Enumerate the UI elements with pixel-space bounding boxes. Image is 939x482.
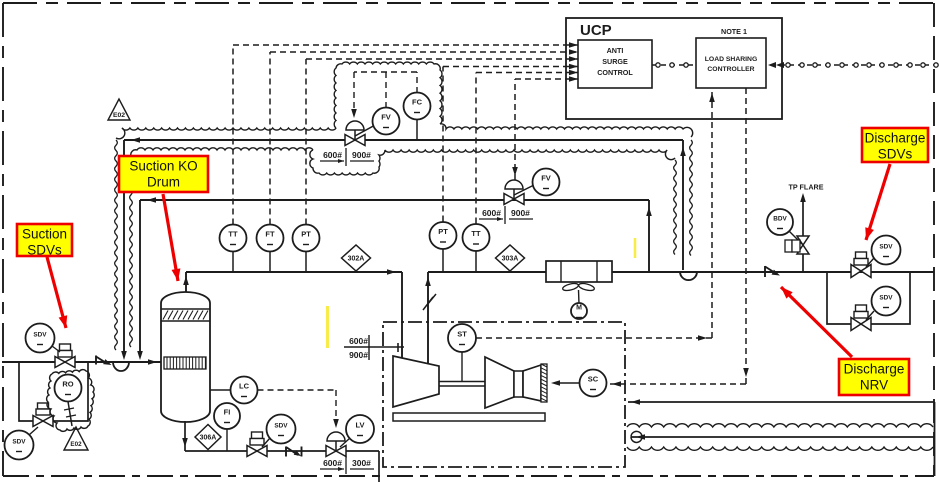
instrument LC xyxy=(210,377,258,404)
label arrow suction SDVs xyxy=(47,257,67,328)
label suction KO drum xyxy=(119,156,208,192)
UCP panel box xyxy=(566,18,782,119)
spec break 600-300 xyxy=(320,456,374,474)
compressor discharge riser xyxy=(423,272,436,368)
node 306A xyxy=(195,425,221,450)
instrument SDV4 xyxy=(872,236,901,265)
instrument FV1 xyxy=(373,108,400,135)
svg-text:Suction: Suction xyxy=(22,227,67,242)
instrument BDV xyxy=(767,209,793,235)
svg-text:TT: TT xyxy=(471,229,481,238)
instrument FV2 xyxy=(533,169,560,196)
FC1 to FV1 signal wire xyxy=(351,72,417,118)
check valve NRV xyxy=(765,266,780,277)
PT2 signal wire xyxy=(443,64,578,222)
instrument FI xyxy=(214,403,240,451)
label arrow discharge NRV xyxy=(781,287,852,357)
svg-text:TP FLARE: TP FLARE xyxy=(788,183,823,192)
revision cloud recycle 1 inner xyxy=(130,148,677,347)
svg-text:600#: 600# xyxy=(349,336,368,346)
svg-text:BDV: BDV xyxy=(773,216,787,223)
vessel suction KO drum xyxy=(161,292,210,422)
svg-text:300#: 300# xyxy=(352,458,371,468)
label arrow discharge SDVs xyxy=(865,164,890,240)
svg-text:LC: LC xyxy=(239,382,250,391)
revision cloud seal gas xyxy=(627,424,933,451)
compressor casing xyxy=(393,356,439,407)
svg-text:PT: PT xyxy=(438,227,448,236)
svg-text:Discharge: Discharge xyxy=(844,362,905,377)
instrument SDV5 xyxy=(872,287,901,316)
turbine driver xyxy=(485,357,547,408)
drum mid distributor xyxy=(164,357,206,369)
discharge bypass line xyxy=(827,271,910,324)
instrument FC1 xyxy=(404,93,431,141)
interlock flag E02 lower xyxy=(64,427,88,450)
fuel gas line arrow xyxy=(628,399,935,476)
svg-text:ST: ST xyxy=(457,330,467,339)
svg-text:SDV: SDV xyxy=(12,439,26,446)
node 303A xyxy=(496,245,525,271)
svg-text:LOAD SHARING: LOAD SHARING xyxy=(705,56,758,63)
svg-text:E02: E02 xyxy=(113,112,125,119)
svg-text:SDV: SDV xyxy=(33,332,47,339)
svg-text:Discharge: Discharge xyxy=(865,131,926,146)
label arrow suction KO drum xyxy=(163,194,180,281)
control valve FV2 xyxy=(504,180,534,205)
svg-text:600#: 600# xyxy=(323,150,342,160)
instrument SDV3 xyxy=(267,415,296,444)
load sharing controller box xyxy=(696,38,766,88)
drum top outlet line xyxy=(183,272,189,292)
ST to LSC signal wire xyxy=(476,88,715,341)
spec break 600-900 no1 xyxy=(320,148,374,166)
highlight mark 1 xyxy=(326,306,329,348)
svg-text:302A: 302A xyxy=(348,256,365,263)
data link ASC-LSC xyxy=(652,63,696,67)
spec break 600-900 turbine inlet xyxy=(344,335,404,360)
svg-text:CONTROL: CONTROL xyxy=(597,68,633,77)
svg-text:SC: SC xyxy=(588,375,599,384)
svg-text:Drum: Drum xyxy=(147,175,180,190)
skid boundary xyxy=(383,322,625,467)
blowdown valve BDV xyxy=(785,231,809,254)
svg-text:900#: 900# xyxy=(511,208,530,218)
svg-text:TT: TT xyxy=(228,230,238,239)
label discharge NRV xyxy=(839,359,909,395)
svg-text:FV: FV xyxy=(541,174,551,183)
drum top demister xyxy=(161,309,210,321)
instrument SDV2 xyxy=(5,427,39,460)
revision cloud recycle 1 outer xyxy=(115,62,693,350)
bypass valve SDV5 xyxy=(851,305,874,331)
SC to turbine wire xyxy=(551,380,580,386)
flare line xyxy=(788,183,823,273)
page border right xyxy=(933,3,935,476)
check valve drain xyxy=(286,447,302,457)
svg-text:E02: E02 xyxy=(70,441,82,448)
data link LSC-right xyxy=(768,62,938,68)
TT2 signal wire xyxy=(476,70,578,224)
drain line xyxy=(185,451,379,482)
drum bottom outlet line xyxy=(182,421,188,451)
instrument FT1 xyxy=(257,225,284,273)
svg-text:FC: FC xyxy=(412,98,423,107)
motor M xyxy=(571,303,587,319)
svg-text:FT: FT xyxy=(265,230,275,239)
svg-text:UCP: UCP xyxy=(580,22,612,39)
svg-text:M: M xyxy=(576,305,582,312)
svg-text:FI: FI xyxy=(224,408,231,417)
recycle line 2 xyxy=(137,197,652,360)
revision cloud RO xyxy=(47,370,95,432)
anti surge control box xyxy=(578,40,652,88)
svg-text:SDVs: SDVs xyxy=(27,243,62,258)
instrument TT2 xyxy=(463,224,490,272)
restriction orifice RO xyxy=(55,375,82,427)
shutdown valve SDV1 xyxy=(55,344,75,368)
instrument SDV1 xyxy=(26,324,61,353)
shaft xyxy=(439,382,485,387)
page border top xyxy=(3,2,934,4)
spec break 600-900 no2 xyxy=(479,206,533,224)
air cooler xyxy=(546,261,612,282)
svg-text:900#: 900# xyxy=(352,150,371,160)
check valve suction xyxy=(96,356,112,366)
svg-text:PT: PT xyxy=(301,230,311,239)
node 302A xyxy=(342,245,371,271)
baseplate xyxy=(393,413,545,421)
instrument PT2 xyxy=(430,222,457,272)
instrument PT1 xyxy=(293,225,320,273)
level valve LV xyxy=(326,432,350,457)
svg-text:CONTROLLER: CONTROLLER xyxy=(707,66,754,73)
svg-text:NOTE 1: NOTE 1 xyxy=(721,27,747,36)
NOTE 1 xyxy=(721,27,747,36)
suction bypass line xyxy=(19,362,88,421)
LSC to SC signal wire xyxy=(607,88,749,387)
suction main line xyxy=(2,359,161,365)
svg-text:NRV: NRV xyxy=(860,378,888,393)
instrument ST xyxy=(448,324,476,381)
suction header line xyxy=(186,269,402,359)
interlock flag E02 upper xyxy=(108,99,130,120)
svg-text:600#: 600# xyxy=(323,458,342,468)
drain valve SDV3 xyxy=(247,432,270,457)
crossing loop suction xyxy=(113,362,129,371)
svg-text:SURGE: SURGE xyxy=(602,57,628,66)
page border bottom xyxy=(3,475,934,477)
label discharge SDVs xyxy=(862,128,928,162)
LC to LV signal wire xyxy=(258,390,339,428)
instrument LV xyxy=(346,415,374,443)
svg-text:FV: FV xyxy=(381,113,391,122)
svg-text:Suction KO: Suction KO xyxy=(129,159,197,174)
svg-text:306A: 306A xyxy=(200,435,217,442)
FV2 signal wire xyxy=(512,76,578,180)
page border left xyxy=(2,3,4,476)
shutdown valve SDV4 xyxy=(851,252,874,278)
TT1 signal wire xyxy=(233,42,578,224)
cooler fan xyxy=(562,282,595,304)
recycle line 1 xyxy=(121,137,697,360)
highlight mark 2 xyxy=(634,238,637,258)
svg-text:RO: RO xyxy=(62,380,73,389)
bypass valve SDV2 xyxy=(33,403,53,427)
discharge header line xyxy=(428,271,934,273)
instrument TT1 xyxy=(220,225,247,273)
svg-text:LV: LV xyxy=(355,421,364,430)
svg-text:SDVs: SDVs xyxy=(878,147,913,162)
control valve FV1 xyxy=(345,121,377,146)
label suction SDVs xyxy=(17,224,72,258)
svg-text:SDV: SDV xyxy=(879,244,893,251)
instrument SC xyxy=(580,370,607,397)
svg-text:ANTI: ANTI xyxy=(607,46,624,55)
FT1 signal wire xyxy=(270,49,578,224)
svg-text:SDV: SDV xyxy=(274,423,288,430)
svg-text:900#: 900# xyxy=(349,350,368,360)
svg-text:600#: 600# xyxy=(482,208,501,218)
svg-text:303A: 303A xyxy=(502,256,519,263)
seal gas line xyxy=(631,431,935,442)
svg-text:SDV: SDV xyxy=(879,295,893,302)
PT1 signal wire xyxy=(306,56,578,224)
